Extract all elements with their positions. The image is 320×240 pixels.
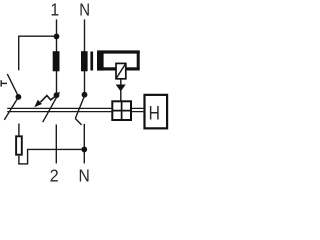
wire: test return to N — [27, 148, 84, 150]
wire: test branch horizontal — [18, 35, 56, 37]
wire: pole 1 upper conductor — [56, 19, 58, 95]
wire: secondary loop bottom right segment — [126, 67, 140, 70]
toroid core bar — [90, 52, 93, 71]
test button plunger dash — [2, 82, 7, 84]
svg-text:H: H — [149, 102, 160, 124]
node: test return junction on N — [81, 147, 87, 153]
trip release arrowhead — [34, 100, 42, 108]
test resistor R — [16, 136, 22, 154]
wire: pole N upper conductor — [84, 19, 86, 94]
pole 1 contact blade (open) — [43, 92, 60, 122]
node: pole N contact junction — [82, 92, 88, 98]
wire: test resistor lower lead — [18, 156, 20, 165]
wire: test return riser — [27, 149, 29, 164]
trip action arrowhead — [116, 85, 126, 92]
coupling box cross vertical — [121, 101, 123, 120]
primary winding pole N — [81, 51, 88, 71]
wire: secondary loop top — [98, 50, 140, 53]
pole N contact hinge foot — [75, 119, 81, 125]
test button actuator bar — [0, 80, 2, 86]
node: test contact pivot — [16, 94, 22, 100]
mechanism coupling box (square with cross) — [112, 101, 131, 120]
wire: test resistor upper lead — [18, 124, 20, 136]
wire: test branch vertical (upper fixed terminal of test contact) — [18, 36, 20, 70]
svg-text:N: N — [79, 0, 90, 19]
wire: pole N lower conductor — [83, 124, 85, 164]
svg-text:2: 2 — [50, 166, 59, 184]
trip release zigzag arrow shaft — [41, 96, 56, 103]
wire: secondary loop bottom left segment — [103, 67, 116, 70]
node: pole 1 contact junction — [54, 92, 60, 98]
wire: pole 1 lower conductor — [55, 125, 57, 164]
node: test branch tap junction on pole 1 — [54, 34, 60, 40]
mechanical linkage line lower — [7, 111, 143, 113]
pole N contact blade (open) — [75, 92, 86, 118]
coupling box cross horizontal — [112, 110, 131, 112]
handle box H — [145, 95, 168, 129]
mechanical linkage line upper — [7, 107, 143, 109]
svg-text:N: N — [79, 165, 90, 184]
svg-text:1: 1 — [50, 0, 59, 20]
test contact blade (open) — [7, 74, 18, 97]
wire: test return bottom horizontal — [18, 163, 27, 165]
primary winding pole 1 — [53, 51, 60, 71]
trip relay U1 (square with diagonal) — [116, 63, 126, 78]
trip action arrow shaft — [120, 80, 122, 101]
test contact linkage diagonal — [4, 97, 18, 120]
secondary winding block — [97, 51, 104, 71]
wire: secondary loop right — [137, 51, 140, 70]
